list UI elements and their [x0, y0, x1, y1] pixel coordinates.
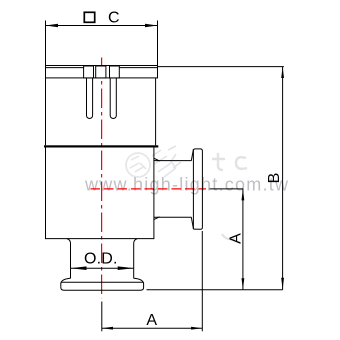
port flange bevel top [191, 150, 193, 161]
bonnet top plate inner line right [119, 67, 157, 69]
watermark logo strokes [152, 146, 181, 177]
arrow B top [281, 67, 284, 78]
arrow C right [145, 24, 158, 27]
centerline vertical [101, 58, 103, 299]
bonnet body right edge [155, 78, 157, 145]
svg-text:B: B [266, 173, 283, 184]
svg-text:www.high-light.com.tw: www.high-light.com.tw [84, 174, 289, 194]
svg-text:C: C [108, 10, 120, 27]
boss 1 [84, 66, 94, 78]
watermark logo circle [126, 153, 150, 177]
lower body right edge [153, 148, 155, 240]
arrow C left [46, 24, 59, 27]
O.D. arrow right [118, 266, 134, 270]
flange collar right [133, 268, 135, 278]
dimension line A bottom [102, 327, 203, 329]
bonnet top plate inner line left [46, 67, 84, 69]
dimension C extension line left [45, 21, 47, 66]
neck right edge [134, 239, 138, 269]
dimension line C [46, 25, 158, 27]
boss 2 stem [96, 66, 106, 78]
bolt slot right [110, 78, 116, 119]
bonnet body left edge [45, 78, 47, 145]
bonnet top plate [46, 66, 158, 78]
square symbol [84, 12, 94, 22]
O.D. dimension line [71, 267, 134, 269]
port tube root fillet bottom [154, 217, 160, 220]
dimension C extension line right [157, 21, 159, 66]
lower body bottom line [46, 238, 154, 240]
centerline horizontal [91, 188, 207, 190]
dimension line A right [242, 189, 244, 290]
dimension B extension line top [158, 66, 284, 68]
svg-text:A: A [146, 312, 157, 329]
arrow A right top [242, 189, 245, 201]
port flange sealing face [193, 149, 202, 229]
neck left edge [67, 239, 71, 269]
port flange back face [192, 149, 194, 229]
bottom extension line [147, 289, 283, 291]
port tube bottom line [154, 216, 192, 218]
arrow B bottom [281, 278, 284, 290]
bolt slot left [86, 78, 92, 119]
center extension line down [101, 302, 103, 332]
watermark tc glyphs [212, 153, 247, 170]
dimension A right extension line [210, 188, 244, 190]
dimension line B [282, 67, 284, 290]
arrow A bottom right [191, 327, 202, 330]
arrow A right bottom [242, 278, 245, 290]
port tube root fillet top [154, 158, 160, 161]
svg-text:O.D.: O.D. [84, 251, 118, 268]
flange collar left [70, 268, 72, 278]
watermark small arc [222, 234, 235, 239]
arrow A bottom left [102, 327, 113, 330]
port flange extension line down [201, 231, 203, 331]
O.D. arrow left [71, 266, 87, 270]
lower body left edge [45, 148, 47, 240]
body joint line [44, 145, 158, 147]
svg-text:A: A [227, 233, 244, 244]
port tube top line [154, 160, 192, 162]
bottom flange inner line [61, 281, 144, 283]
port flange bevel bottom [191, 217, 193, 229]
boss 3 [110, 66, 120, 78]
bottom flange disk [61, 278, 144, 290]
